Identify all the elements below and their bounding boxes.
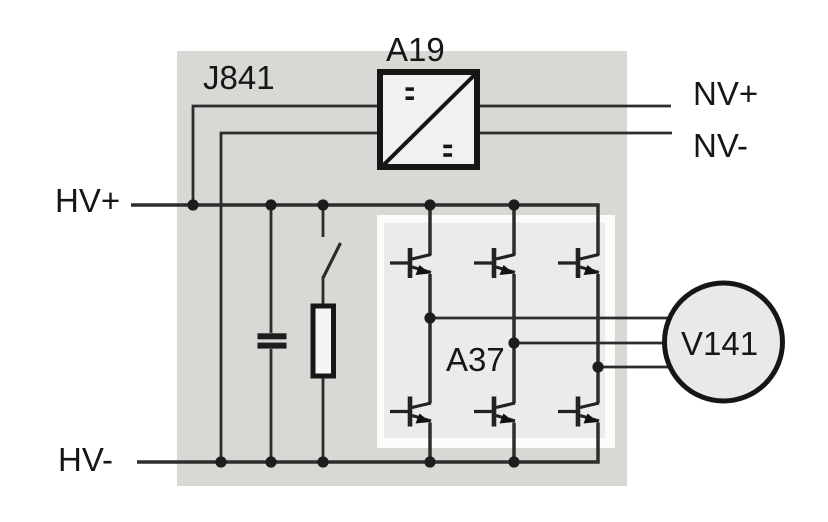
wire NV+ output [480, 105, 671, 108]
transistor V4 (bottom leg1 IGBT) [390, 397, 431, 427]
junction HV+ / switch branch [317, 199, 328, 210]
junction HV- / capacitor [265, 456, 276, 467]
wire phase U to motor [430, 317, 690, 320]
motor V141 [665, 283, 783, 401]
transistor V2 (top leg2 IGBT) [474, 248, 515, 278]
wire inverter leg 1 [428, 205, 432, 462]
svg-text:HV-: HV- [58, 441, 113, 478]
junction HV- / leg1 [424, 456, 435, 467]
wire HV+ rail [131, 205, 598, 255]
svg-text:NV+: NV+ [693, 75, 758, 112]
wire phase W to motor [598, 366, 690, 369]
junction HV+ / leg1 [424, 199, 435, 210]
svg-text:A19: A19 [386, 31, 445, 68]
wire HV- rail [137, 423, 598, 463]
wire capacitor branch [270, 205, 273, 333]
dc/dc converter A19 [380, 72, 477, 167]
junction HV- / resistor [317, 456, 328, 467]
junction HV+ / A19 input [187, 199, 198, 210]
control unit enclosure J841 [177, 51, 627, 486]
wire switch branch [322, 205, 325, 237]
svg-text:A37: A37 [446, 341, 505, 378]
wire phase V to motor [514, 342, 690, 345]
svg-text:NV-: NV- [693, 127, 748, 164]
svg-text:J841: J841 [203, 59, 275, 96]
wire inverter leg 2 [512, 205, 516, 462]
transistor V5 (bottom leg2 IGBT) [474, 397, 515, 427]
wire inverter leg 3 [596, 274, 600, 403]
wire NV- output [480, 132, 672, 135]
capacitor C1 [258, 333, 287, 348]
svg-text:HV+: HV+ [55, 182, 120, 219]
transistor V1 (top leg1 IGBT) [390, 248, 431, 278]
wire switch to resistor [322, 276, 325, 304]
inverter block A37 background [377, 215, 615, 448]
junction leg1 / phase U [424, 312, 435, 323]
junction HV- / A19 return [215, 456, 226, 467]
junction HV- / leg2 [508, 456, 519, 467]
transistor V3 (top leg3 IGBT) [558, 248, 599, 278]
switch S1 (blade) [323, 243, 341, 278]
resistor R1 [313, 306, 334, 376]
junction leg3 / phase W [592, 361, 603, 372]
junction HV+ / leg2 [508, 199, 519, 210]
junction leg2 / phase V [508, 337, 519, 348]
transistor V6 (bottom leg3 IGBT) [558, 397, 599, 427]
junction HV+ / capacitor [265, 199, 276, 210]
wire A19 input + (left top) [193, 106, 377, 205]
wire resistor to HV- [322, 379, 325, 463]
wire A19 input - (left bottom, to HV-) [221, 133, 377, 462]
svg-text:V141: V141 [681, 325, 758, 362]
